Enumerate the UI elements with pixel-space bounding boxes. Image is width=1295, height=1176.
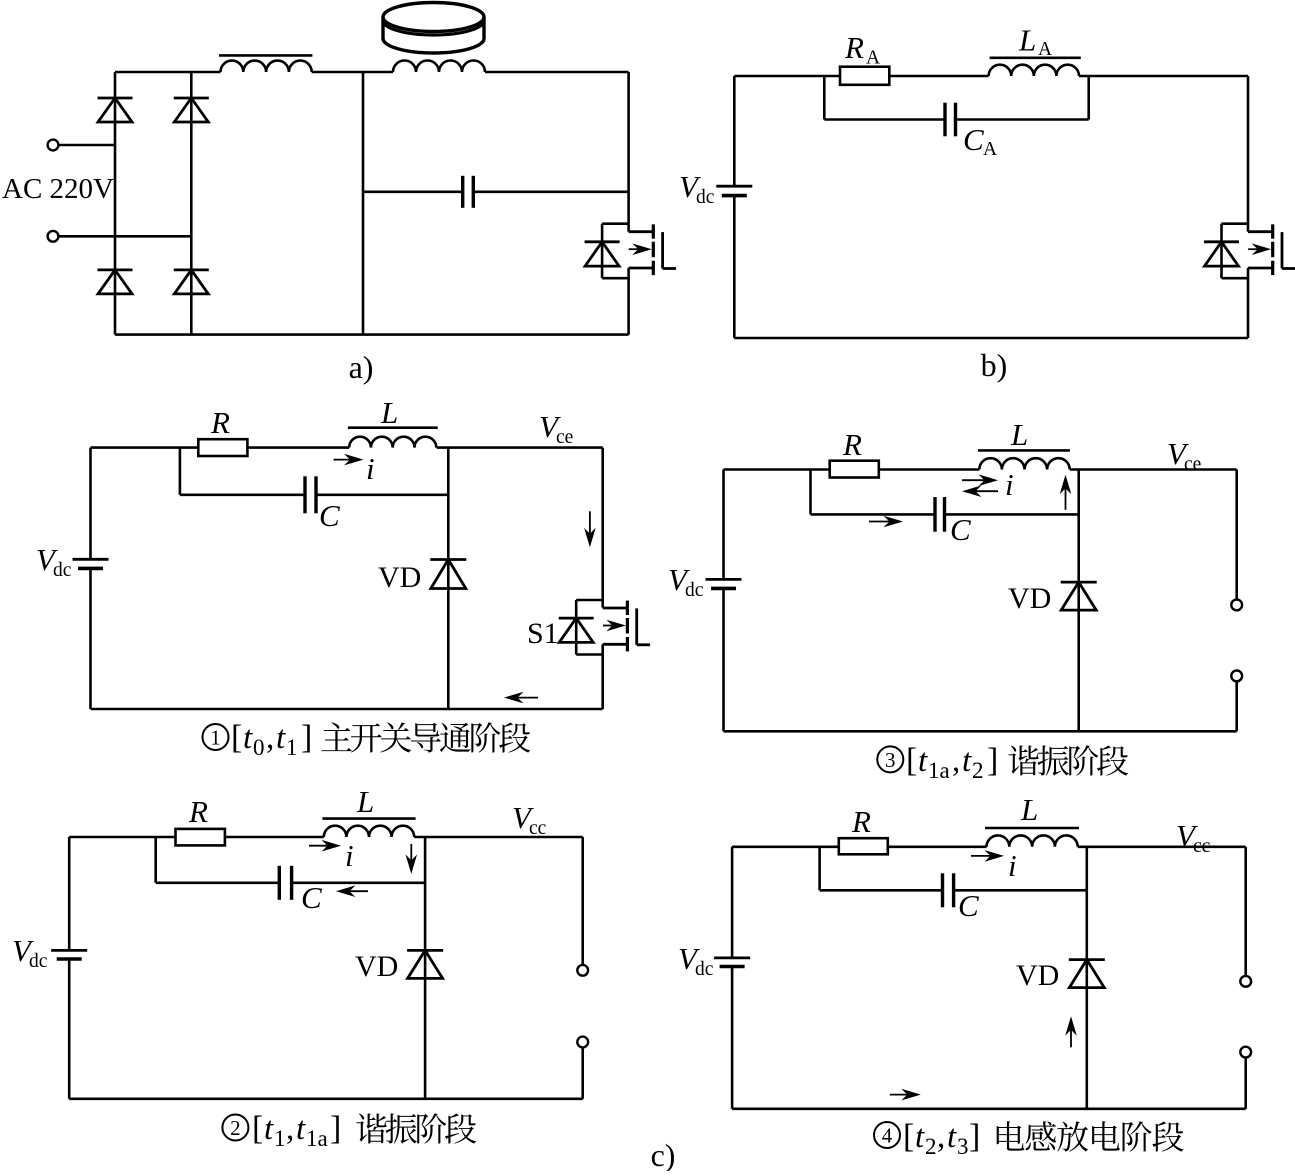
- svg-text:VD: VD: [1008, 582, 1051, 615]
- svg-text:t: t: [296, 1111, 306, 1147]
- svg-text:C: C: [950, 512, 971, 547]
- svg-text:3: 3: [957, 1134, 969, 1159]
- label C (s4): [958, 888, 979, 923]
- svg-text:2: 2: [925, 1134, 937, 1159]
- svg-text:1: 1: [210, 726, 221, 750]
- transistor S MOSFET with body diode (b): [1204, 224, 1295, 279]
- wire a left vertical: [114, 72, 117, 335]
- label b): [981, 347, 1008, 383]
- arrow i right (s1): [334, 454, 364, 466]
- wire s1 right vertical lower: [601, 644, 604, 709]
- svg-text:]: ]: [987, 742, 998, 779]
- capacitor C branch (s3): [811, 470, 936, 515]
- svg-text:L: L: [356, 784, 374, 819]
- capacitor C wire right (s1): [316, 493, 448, 496]
- svg-text:t: t: [276, 720, 286, 756]
- svg-text:,: ,: [937, 1119, 945, 1155]
- wire s4 middle vertical: [1086, 847, 1089, 1109]
- svg-text:0: 0: [253, 735, 265, 760]
- svg-text:VD: VD: [355, 950, 398, 983]
- label R (s3): [842, 427, 862, 462]
- wire s2 top-right segment: [414, 836, 583, 839]
- diode VD (s4): [1069, 960, 1105, 988]
- AC terminal lower: [48, 231, 192, 242]
- svg-text:dc: dc: [29, 951, 48, 972]
- svg-text:t: t: [915, 1119, 925, 1155]
- label RA: [844, 30, 880, 69]
- wire s3 left vertical lower: [722, 588, 725, 731]
- arrow down at L right (s2): [406, 844, 418, 874]
- wire s2 bottom: [69, 1098, 583, 1101]
- label Vce (s3): [1167, 436, 1201, 475]
- svg-text:A: A: [1038, 39, 1052, 60]
- arrow left on bottom (s1): [504, 692, 538, 704]
- inductor L (s3): [978, 450, 1070, 469]
- wire s1 right vertical upper: [601, 448, 604, 608]
- caption 2 interval: [252, 1110, 341, 1151]
- wire b left vertical upper: [733, 76, 736, 186]
- wire a middle vertical: [362, 72, 365, 335]
- capacitor C branch (s2): [156, 837, 280, 883]
- resistor R (s2): [176, 829, 225, 846]
- wire b bottom: [734, 337, 1248, 340]
- svg-text:VD: VD: [1016, 959, 1059, 992]
- svg-text:,: ,: [286, 1111, 294, 1147]
- wire s2 top-left segment: [69, 836, 175, 839]
- transistor S MOSFET with body diode (a): [585, 224, 676, 279]
- wire s2 right vertical lower: [581, 1047, 584, 1098]
- svg-text:ce: ce: [1184, 454, 1201, 475]
- wire a top-left segment: [115, 71, 221, 74]
- inductor LA: [989, 58, 1081, 76]
- inductor L (s1): [348, 428, 438, 448]
- resistor R (s1): [198, 439, 247, 456]
- svg-text:dc: dc: [695, 959, 714, 980]
- svg-text:VD: VD: [378, 561, 421, 594]
- svg-text:L: L: [1010, 417, 1028, 452]
- svg-text:AC 220V: AC 220V: [2, 173, 114, 205]
- capacitor CA branch right: [956, 76, 1089, 120]
- label L (s4): [1020, 792, 1038, 827]
- wire b right vertical lower: [1247, 268, 1250, 338]
- inductor L (s2): [322, 819, 415, 837]
- wire s4 top-mid segment: [888, 845, 987, 848]
- diode VD4 bridge lower-right: [174, 270, 209, 294]
- caption 1 interval: [231, 719, 312, 760]
- diode VD3 bridge lower-left: [98, 270, 133, 294]
- wire s1 top-mid segment: [247, 446, 349, 449]
- svg-text:A: A: [866, 48, 880, 69]
- arrow up at L right (s3): [1060, 475, 1072, 510]
- label i (s2): [345, 838, 354, 873]
- svg-text:t: t: [947, 1119, 957, 1155]
- label Vcc (s2): [512, 800, 547, 839]
- wire a right vertical upper: [627, 72, 630, 232]
- arrow up below VD (s4): [1065, 1016, 1077, 1047]
- svg-text:ce: ce: [556, 427, 573, 448]
- arrow i left (s3): [962, 485, 998, 497]
- capacitor C wire right (s4): [954, 889, 1087, 892]
- induction pot above work coil: [383, 3, 484, 53]
- svg-text:b): b): [981, 347, 1008, 383]
- svg-text:S1: S1: [527, 617, 559, 650]
- resistor R (s4): [839, 838, 888, 854]
- svg-text:i: i: [1008, 848, 1017, 883]
- label VD (s3): [1008, 582, 1051, 615]
- wire s3 left vertical upper: [722, 470, 725, 580]
- diode VD (s1): [430, 560, 466, 589]
- capacitor CA: [945, 103, 956, 137]
- svg-text:t: t: [264, 1111, 274, 1147]
- svg-text:]: ]: [969, 1118, 980, 1155]
- wire s4 left vertical lower: [731, 967, 734, 1109]
- transistor S1 MOSFET with body diode: [559, 600, 650, 655]
- svg-text:2: 2: [230, 1116, 241, 1140]
- label VD (s4): [1016, 959, 1059, 992]
- wire s4 top-left segment: [732, 845, 839, 848]
- svg-text:]: ]: [330, 1110, 341, 1147]
- label Vdc (s1): [36, 542, 72, 581]
- svg-text:R: R: [842, 427, 862, 462]
- arrow i right (s2): [309, 840, 341, 852]
- arrow i right (s3): [962, 474, 998, 486]
- wire s1 top-right segment: [437, 446, 603, 449]
- wire s4 bottom: [732, 1108, 1246, 1111]
- battery Vdc (s4): [714, 958, 750, 967]
- svg-text:1a: 1a: [928, 758, 950, 783]
- svg-text:dc: dc: [685, 580, 704, 601]
- label R (s2): [188, 794, 208, 829]
- wire b top-mid segment: [889, 75, 988, 78]
- resistor RA: [840, 67, 889, 85]
- svg-text:t: t: [918, 743, 928, 779]
- label Vdc (s2): [12, 933, 48, 972]
- capacitor C wire right (s3): [945, 513, 1079, 516]
- caption 2 text: [356, 1113, 476, 1143]
- wire s3 right vertical lower: [1235, 681, 1238, 731]
- capacitor C1 wire right: [473, 191, 628, 194]
- svg-text:c): c): [651, 1137, 676, 1171]
- wire s2 middle vertical: [424, 837, 427, 1099]
- svg-text:C: C: [963, 122, 984, 157]
- svg-text:A: A: [983, 139, 997, 160]
- svg-text:L: L: [1018, 23, 1036, 58]
- wire s3 top-mid segment: [879, 468, 980, 471]
- svg-text:t: t: [243, 720, 253, 756]
- wire s1 left vertical upper: [89, 448, 92, 560]
- label Vdc (s4): [678, 941, 714, 980]
- label C (s3): [950, 512, 971, 547]
- capacitor C (s1): [305, 476, 316, 513]
- svg-text:a): a): [349, 349, 374, 385]
- resistor R (s3): [830, 461, 879, 478]
- label i (s4): [1008, 848, 1017, 883]
- terminal lower (s4): [1240, 1047, 1251, 1058]
- diode VD (s3): [1061, 582, 1097, 610]
- svg-text:dc: dc: [53, 560, 72, 581]
- arrow right on bottom (s4): [890, 1089, 921, 1101]
- arrow left on C wire (s2): [336, 885, 368, 897]
- wire s1 left vertical lower: [89, 568, 92, 709]
- wire s3 right vertical upper: [1235, 470, 1238, 600]
- diode VD (s2): [407, 950, 443, 978]
- wire s2 left vertical lower: [68, 959, 71, 1099]
- svg-text:R: R: [188, 794, 208, 829]
- label LA: [1018, 23, 1052, 61]
- svg-text:C: C: [958, 888, 979, 923]
- wire b top-left segment: [734, 75, 840, 78]
- svg-text:cc: cc: [529, 818, 547, 839]
- capacitor C branch (s4): [820, 847, 943, 891]
- label C (s2): [301, 880, 322, 915]
- wire s1 top-left segment: [91, 446, 199, 449]
- wire s4 right vertical upper: [1244, 847, 1247, 976]
- svg-text:,: ,: [952, 743, 960, 779]
- terminal lower (s3): [1231, 671, 1242, 682]
- arrow down (s1): [584, 511, 596, 547]
- svg-text:2: 2: [972, 758, 984, 783]
- svg-text:R: R: [210, 405, 230, 440]
- caption 4 interval: [903, 1118, 980, 1159]
- wire a right vertical lower: [627, 268, 630, 335]
- wire b right vertical upper: [1247, 76, 1250, 232]
- caption 3 interval: [906, 742, 998, 783]
- caption 3 text: [1008, 745, 1128, 775]
- capacitor C branch (s1): [180, 448, 305, 495]
- wire s3 bottom: [724, 730, 1237, 733]
- svg-text:[: [: [906, 742, 917, 779]
- label a): [349, 349, 374, 385]
- label VD (s2): [355, 950, 398, 983]
- wire s4 right vertical lower: [1244, 1058, 1247, 1109]
- svg-text:L: L: [1020, 792, 1038, 827]
- svg-text:[: [: [903, 1118, 914, 1155]
- wire s1 middle vertical: [447, 448, 450, 709]
- label C (s1): [319, 498, 340, 533]
- capacitor C (s4): [943, 873, 954, 907]
- svg-text:t: t: [962, 743, 972, 779]
- inductor L1 filter choke: [219, 55, 312, 72]
- label S1: [527, 617, 559, 650]
- label VD (s1): [378, 561, 421, 594]
- wire a top-mid segment: [312, 71, 393, 74]
- terminal lower (s2): [577, 1037, 588, 1048]
- label L (s1): [380, 395, 398, 430]
- wire s3 top-right segment: [1070, 468, 1237, 471]
- caption 1 text: [321, 722, 530, 752]
- label R (s1): [210, 405, 230, 440]
- label c): [651, 1137, 676, 1173]
- svg-text:R: R: [844, 30, 864, 65]
- wire s4 left vertical upper: [731, 847, 734, 958]
- svg-text:[: [: [252, 1110, 263, 1147]
- caption 2 circled number: [222, 1115, 248, 1141]
- caption 3 circled number: [877, 746, 903, 772]
- terminal upper (s4): [1240, 976, 1251, 987]
- caption 4 text: [997, 1121, 1184, 1151]
- capacitor C (s2): [279, 866, 291, 900]
- wire s2 right vertical upper: [581, 837, 584, 965]
- battery Vdc (s2): [51, 950, 87, 959]
- svg-text:1: 1: [286, 735, 298, 760]
- capacitor C (s3): [935, 497, 945, 532]
- svg-text:L: L: [380, 395, 398, 430]
- svg-text:i: i: [1005, 467, 1014, 502]
- wire a bottom: [115, 333, 629, 336]
- arrow right on C wire (s3): [869, 516, 903, 528]
- capacitor C wire right (s2): [292, 881, 426, 884]
- wire b left vertical lower: [733, 196, 736, 338]
- svg-text:[: [: [231, 719, 242, 756]
- capacitor CA branch left: [824, 76, 945, 120]
- wire a top-right segment: [485, 71, 629, 74]
- arrow i right (s4): [971, 850, 1004, 862]
- diode VD2 bridge upper-right: [174, 98, 209, 122]
- terminal upper (s3): [1231, 600, 1242, 611]
- inductor work coil: [393, 61, 485, 73]
- svg-text:]: ]: [301, 719, 312, 756]
- svg-text:4: 4: [882, 1124, 893, 1148]
- label R (s4): [851, 804, 871, 839]
- svg-text:dc: dc: [696, 187, 715, 208]
- label L (s2): [356, 784, 374, 819]
- svg-text:3: 3: [885, 748, 896, 772]
- svg-text:i: i: [345, 838, 354, 873]
- battery Vdc (s1): [73, 559, 109, 568]
- label Vcc (s4): [1176, 818, 1211, 857]
- label AC 220V: [2, 173, 114, 205]
- terminal upper (s2): [577, 965, 588, 976]
- battery Vdc (s3): [706, 579, 742, 588]
- wire b top-right segment: [1079, 75, 1248, 78]
- wire s4 top-right segment: [1078, 845, 1246, 848]
- svg-text:1a: 1a: [306, 1126, 328, 1151]
- svg-text:1: 1: [274, 1126, 286, 1151]
- svg-text:,: ,: [266, 720, 274, 756]
- label CA: [963, 122, 997, 160]
- label Vce (s1): [539, 409, 573, 448]
- wire s2 left vertical upper: [68, 837, 71, 950]
- label Vdc (b): [679, 169, 715, 208]
- battery Vdc (b): [716, 186, 752, 195]
- diode VD1 bridge upper-left: [98, 98, 133, 122]
- label i (s1): [366, 451, 375, 486]
- capacitor C1: [463, 176, 474, 208]
- svg-text:cc: cc: [1193, 836, 1211, 857]
- wire s3 top-left segment: [724, 468, 830, 471]
- svg-text:R: R: [851, 804, 871, 839]
- label L (s3): [1010, 417, 1028, 452]
- inductor L (s4): [985, 828, 1079, 847]
- svg-text:i: i: [366, 451, 375, 486]
- capacitor C1 wire left: [363, 191, 463, 194]
- caption 1 circled number: [203, 724, 229, 750]
- AC terminal upper: [48, 140, 115, 151]
- label Vdc (s3): [668, 562, 704, 601]
- wire s1 bottom: [91, 708, 603, 711]
- svg-text:C: C: [301, 880, 322, 915]
- wire s2 top-mid segment: [225, 836, 324, 839]
- svg-text:C: C: [319, 498, 340, 533]
- wire a second vertical: [190, 72, 193, 335]
- wire s3 middle vertical: [1077, 470, 1080, 732]
- label i (s3): [1005, 467, 1014, 502]
- caption 4 circled number: [874, 1122, 900, 1148]
